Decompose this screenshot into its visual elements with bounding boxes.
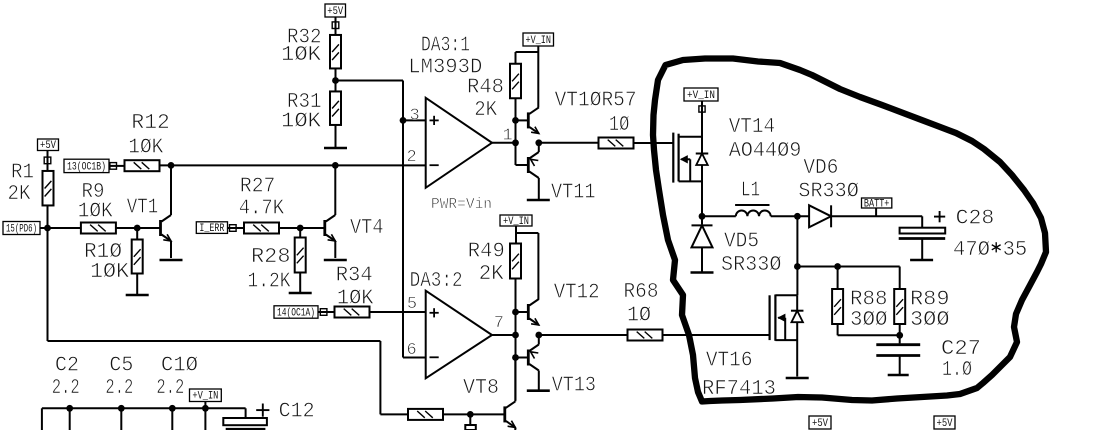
svg-text:R68: R68 [624, 281, 659, 304]
svg-text:14(OC1A): 14(OC1A) [277, 307, 315, 319]
svg-text:15(PD6): 15(PD6) [6, 223, 37, 235]
svg-text:1.2K: 1.2K [248, 271, 291, 294]
svg-text:1ØK: 1ØK [90, 261, 129, 284]
svg-text:7: 7 [494, 314, 504, 333]
svg-text:+5V: +5V [937, 418, 953, 430]
svg-text:VD5: VD5 [724, 231, 759, 254]
svg-text:1.Ø: 1.Ø [942, 359, 972, 382]
svg-text:1ØK: 1ØK [281, 111, 321, 134]
svg-text:47Ø: 47Ø [953, 239, 990, 262]
svg-text:C12: C12 [279, 401, 315, 424]
svg-text:+5V: +5V [812, 418, 828, 430]
svg-text:VT13: VT13 [552, 375, 596, 398]
svg-text:6: 6 [407, 341, 417, 360]
svg-text:DA3:2: DA3:2 [410, 270, 463, 293]
svg-text:R12: R12 [131, 112, 169, 135]
svg-text:L1: L1 [741, 180, 760, 203]
svg-text:VT1: VT1 [127, 197, 159, 220]
svg-text:R48: R48 [467, 76, 504, 99]
svg-text:13(OC1B): 13(OC1B) [67, 161, 106, 173]
svg-text:2K: 2K [474, 99, 497, 122]
svg-text:+V_IN: +V_IN [192, 391, 218, 403]
svg-text:VT16: VT16 [706, 350, 753, 373]
svg-text:VT4: VT4 [350, 217, 384, 240]
svg-text:R28: R28 [251, 246, 291, 269]
svg-text:C5: C5 [109, 354, 133, 377]
svg-text:1Ø: 1Ø [627, 304, 651, 327]
svg-text:+V_IN: +V_IN [687, 90, 715, 102]
svg-text:1ØK: 1ØK [337, 287, 374, 310]
svg-text:2.2: 2.2 [105, 377, 133, 400]
svg-text:VT12: VT12 [554, 282, 600, 305]
svg-text:+5V: +5V [327, 6, 343, 18]
svg-text:C28: C28 [956, 208, 995, 231]
svg-text:1Ø: 1Ø [609, 114, 630, 137]
svg-text:1ØK: 1ØK [281, 44, 321, 67]
svg-text:R49: R49 [468, 241, 505, 264]
svg-text:VT11: VT11 [551, 182, 596, 205]
svg-text:DA3:1: DA3:1 [421, 35, 470, 58]
svg-text:2.2: 2.2 [156, 377, 184, 400]
svg-text:C2: C2 [55, 354, 79, 377]
svg-text:2K: 2K [479, 263, 504, 286]
svg-text:VT14: VT14 [729, 116, 776, 139]
svg-text:R34: R34 [336, 265, 373, 288]
svg-text:I_ERR: I_ERR [199, 223, 224, 235]
svg-text:R1: R1 [11, 161, 34, 184]
svg-text:VD6: VD6 [803, 157, 838, 180]
svg-text:PWR=Vin: PWR=Vin [431, 196, 492, 213]
svg-text:SR33Ø: SR33Ø [798, 181, 858, 204]
svg-text:3ØØ: 3ØØ [850, 309, 888, 332]
svg-text:R27: R27 [240, 176, 275, 199]
svg-text:SR33Ø: SR33Ø [721, 254, 781, 277]
svg-text:35: 35 [1003, 239, 1028, 262]
svg-text:2.2: 2.2 [52, 377, 80, 400]
svg-text:+5V: +5V [40, 140, 56, 152]
svg-text:+V_IN: +V_IN [526, 35, 552, 47]
svg-text:3: 3 [410, 107, 420, 126]
svg-text:1ØK: 1ØK [78, 201, 113, 224]
svg-text:C1Ø: C1Ø [161, 354, 198, 377]
svg-text:C27: C27 [941, 338, 981, 361]
svg-text:3ØØ: 3ØØ [910, 309, 950, 332]
svg-text:4.7K: 4.7K [239, 198, 285, 221]
svg-text:2: 2 [407, 148, 417, 167]
svg-text:AO44Ø9: AO44Ø9 [729, 140, 802, 163]
svg-text:1ØK: 1ØK [128, 136, 163, 159]
svg-text:2K: 2K [8, 183, 31, 206]
svg-text:VT8: VT8 [463, 377, 499, 400]
svg-text:VT1ØR57: VT1ØR57 [555, 90, 637, 113]
